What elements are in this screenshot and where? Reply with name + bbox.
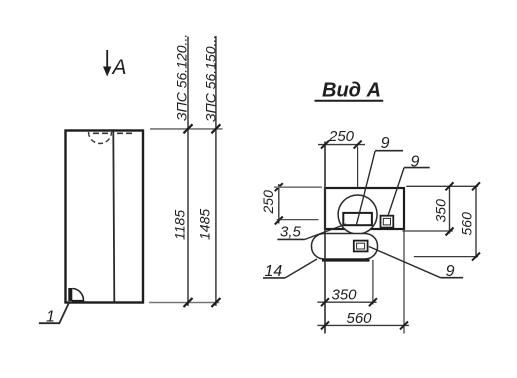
right vertical dims: top ext line bbox=[406, 185, 478, 187]
ticks 350 bottom bbox=[321, 298, 377, 306]
svg-text:ЗПС 56.120...: ЗПС 56.120... bbox=[174, 34, 190, 121]
svg-text:1: 1 bbox=[46, 309, 55, 326]
plate outline (view A) bbox=[325, 188, 404, 229]
svg-text:Вид А: Вид А bbox=[322, 80, 381, 102]
svg-text:560: 560 bbox=[347, 310, 373, 327]
underline 9 second bbox=[404, 167, 430, 169]
leader 9 first bbox=[357, 151, 376, 225]
leader 9 third bbox=[369, 247, 441, 278]
leader 3,5 bbox=[305, 224, 346, 239]
view A title underline bbox=[315, 100, 384, 102]
tick marks front view dims bbox=[184, 124, 221, 307]
panel internal edge bbox=[113, 132, 114, 303]
ticks 250 left bbox=[275, 183, 283, 224]
fastener square 9 lower bbox=[354, 241, 368, 252]
extension line circle centre top bbox=[357, 147, 359, 188]
stadium thick bottom edge bbox=[322, 259, 370, 262]
svg-text:1185: 1185 bbox=[172, 210, 188, 240]
extension line right edge down bbox=[403, 229, 405, 334]
extension line left edge (long) bbox=[324, 142, 326, 334]
svg-text:250: 250 bbox=[328, 128, 355, 145]
underline 14 bbox=[263, 277, 285, 279]
ticks 250 top bbox=[321, 141, 362, 149]
bottom ext line right bbox=[414, 256, 478, 258]
panel front view outline bbox=[66, 131, 144, 303]
hidden edge dashes right bbox=[117, 132, 133, 134]
view arrow A head bbox=[103, 67, 111, 77]
svg-text:250: 250 bbox=[260, 190, 276, 215]
underline 9 first bbox=[375, 150, 403, 152]
underline 3,5 bbox=[277, 238, 305, 240]
dimension line 1185 bbox=[187, 37, 189, 307]
svg-text:560: 560 bbox=[458, 212, 474, 236]
hole circle bbox=[338, 195, 377, 234]
ticks right dims bbox=[446, 182, 481, 260]
left dim 250 vertical line bbox=[278, 184, 280, 224]
latch rectangle in circle bbox=[343, 213, 372, 225]
ticks 560 bottom bbox=[321, 321, 408, 329]
svg-text:3,5: 3,5 bbox=[280, 224, 302, 241]
dim line 350 bottom bbox=[317, 301, 376, 303]
leader 14 bbox=[285, 259, 317, 278]
leader 9 second bbox=[388, 168, 404, 215]
extension line bottom (front view) bbox=[149, 302, 219, 304]
hidden circle arc (dashed) bbox=[89, 132, 112, 143]
leader to label 1 bbox=[39, 303, 69, 323]
ext line 250 left bottom bbox=[277, 219, 319, 221]
svg-text:ЗПС 56.150...: ЗПС 56.150... bbox=[202, 35, 218, 122]
dim line 350 right bbox=[449, 186, 451, 233]
view arrow A shaft bbox=[106, 50, 108, 73]
fastener square 9 upper bbox=[381, 216, 394, 228]
corner bracket detail 1 bbox=[68, 288, 72, 301]
ext line 250 left top bbox=[274, 186, 322, 188]
hidden edge dashes left bbox=[93, 132, 110, 134]
svg-text:9: 9 bbox=[381, 135, 390, 152]
extension line top (front view) bbox=[150, 128, 223, 130]
svg-text:1485: 1485 bbox=[197, 209, 213, 240]
dim line 250 top bbox=[318, 144, 365, 146]
extension line stadium right down bbox=[372, 260, 374, 305]
svg-text:А: А bbox=[111, 56, 127, 79]
dim line 560 bottom bbox=[317, 324, 409, 326]
dim line 560 right bbox=[475, 186, 477, 258]
lower stadium shape bbox=[312, 234, 378, 260]
mid ext line right bbox=[403, 230, 453, 232]
dimension line 1485 bbox=[215, 36, 217, 306]
underline 9 third bbox=[441, 277, 464, 279]
svg-text:350: 350 bbox=[332, 287, 358, 304]
svg-text:350: 350 bbox=[432, 199, 448, 223]
